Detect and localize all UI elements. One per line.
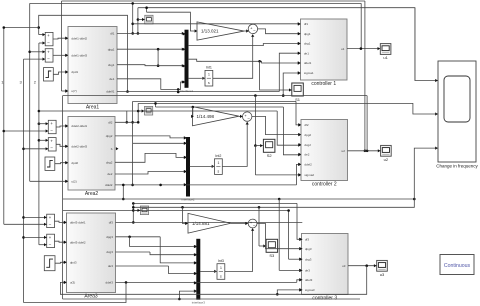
svg-text:de3: de3 — [305, 269, 310, 273]
svg-text:u(3): u(3) — [70, 281, 75, 285]
svg-text:sigma1: sigma1 — [304, 71, 314, 75]
svg-text:dpg1: dpg1 — [304, 32, 311, 36]
svg-text:ddel1-ddel2: ddel1-ddel2 — [71, 36, 87, 40]
svg-text:df1: df1 — [304, 22, 309, 26]
svg-text:ddel3: ddel3 — [106, 281, 114, 285]
svg-text:ddel1: ddel1 — [304, 61, 312, 65]
svg-text:interface2: interface2 — [181, 198, 195, 202]
svg-text:dpg2: dpg2 — [106, 134, 113, 138]
svg-text:dpg1: dpg1 — [108, 48, 115, 52]
svg-text:dpd2: dpd2 — [71, 161, 78, 165]
svg-text:S3: S3 — [269, 253, 275, 258]
svg-text:u3: u3 — [342, 264, 346, 268]
svg-text:u1: u1 — [341, 47, 345, 51]
svg-text:−: − — [50, 128, 53, 133]
svg-text:1: 1 — [220, 266, 222, 270]
svg-text:−: − — [253, 28, 256, 33]
svg-text:1/13.021: 1/13.021 — [201, 29, 219, 34]
svg-text:df3: df3 — [109, 221, 114, 225]
svg-text:df3: df3 — [305, 238, 310, 242]
svg-text:sigma2: sigma2 — [304, 173, 314, 177]
svg-text:ddel1-ddel3: ddel1-ddel3 — [71, 54, 87, 58]
svg-text:dpg2: dpg2 — [304, 133, 311, 137]
svg-text:interface3: interface3 — [192, 301, 206, 305]
svg-text:s: s — [208, 81, 210, 85]
svg-text:ddel3-ddel1: ddel3-ddel1 — [70, 221, 86, 225]
svg-text:df2: df2 — [304, 123, 309, 127]
svg-text:Area1: Area1 — [86, 105, 100, 111]
svg-text:1/14.498: 1/14.498 — [197, 114, 215, 119]
svg-text:Change in frequency: Change in frequency — [436, 164, 478, 169]
svg-text:1/14.881: 1/14.881 — [192, 221, 210, 226]
svg-text:dpd3: dpd3 — [70, 261, 77, 265]
svg-text:ddelf1: ddelf1 — [106, 90, 115, 94]
svg-text:interface1: interface1 — [180, 89, 194, 93]
svg-text:u2: u2 — [384, 157, 389, 162]
svg-text:Continuous: Continuous — [444, 263, 471, 269]
svg-text:de2: de2 — [107, 172, 112, 176]
svg-text:u2: u2 — [342, 149, 346, 153]
svg-text:dpg3: dpg3 — [106, 235, 113, 239]
svg-text:df1: df1 — [110, 31, 115, 35]
svg-text:Int2: Int2 — [215, 154, 221, 158]
svg-text:−: − — [247, 115, 250, 120]
svg-text:S2: S2 — [267, 153, 273, 158]
svg-text:de1: de1 — [109, 77, 114, 81]
svg-text:−: − — [49, 242, 52, 247]
svg-text:controller 3: controller 3 — [312, 296, 337, 302]
svg-text:ddel2-ddel3: ddel2-ddel3 — [71, 145, 87, 149]
svg-text:controller 1: controller 1 — [311, 81, 336, 87]
svg-text:dxg2: dxg2 — [304, 143, 311, 147]
svg-text:ddel3-ddel2: ddel3-ddel2 — [70, 240, 86, 244]
svg-text:−: − — [47, 57, 50, 62]
svg-text:df2: df2 — [108, 121, 113, 125]
svg-text:controller 2: controller 2 — [312, 182, 337, 188]
svg-text:de3: de3 — [108, 264, 113, 268]
svg-text:dpg3: dpg3 — [305, 247, 312, 251]
svg-text:s: s — [218, 169, 220, 173]
svg-text:u3: u3 — [380, 272, 385, 277]
svg-text:dxg3: dxg3 — [106, 250, 113, 254]
svg-text:1: 1 — [208, 73, 210, 77]
svg-text:dxg1: dxg1 — [108, 63, 115, 67]
svg-text:u1: u1 — [383, 55, 388, 60]
svg-text:s: s — [220, 274, 222, 278]
svg-text:ddel2-ddel1: ddel2-ddel1 — [71, 124, 87, 128]
svg-text:ddel2: ddel2 — [105, 183, 113, 187]
svg-text:Int3: Int3 — [218, 259, 224, 263]
svg-text:−: − — [50, 146, 53, 151]
svg-text:ddel2: ddel2 — [304, 163, 312, 167]
svg-text:sigma3: sigma3 — [305, 288, 315, 292]
svg-text:1: 1 — [217, 161, 219, 165]
svg-text:dxg3: dxg3 — [305, 257, 312, 261]
svg-text:dpd1: dpd1 — [71, 70, 78, 74]
svg-text:ddel3: ddel3 — [305, 278, 313, 282]
svg-text:de2: de2 — [304, 153, 309, 157]
svg-text:u(7): u(7) — [71, 89, 76, 93]
svg-text:dxg1: dxg1 — [304, 42, 311, 46]
svg-text:dxg2: dxg2 — [106, 161, 113, 165]
svg-text:de1: de1 — [304, 51, 309, 55]
svg-text:−: − — [49, 222, 52, 227]
svg-text:Int1: Int1 — [206, 66, 212, 70]
svg-text:−: − — [253, 222, 256, 227]
svg-text:Area2: Area2 — [85, 191, 99, 197]
svg-text:u(2): u(2) — [71, 180, 76, 184]
svg-text:−: − — [47, 40, 50, 45]
